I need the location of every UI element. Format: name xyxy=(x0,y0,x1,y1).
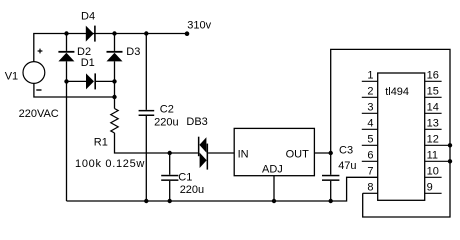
junction C2 top xyxy=(144,31,148,35)
svg-text:DB3: DB3 xyxy=(186,116,207,128)
junction OUT C3 xyxy=(329,151,333,155)
diode D4 xyxy=(86,26,94,42)
svg-text:220u: 220u xyxy=(154,117,178,129)
svg-text:10: 10 xyxy=(427,166,439,178)
minus sign xyxy=(36,89,41,91)
regulator box xyxy=(234,128,314,175)
svg-text:V1: V1 xyxy=(5,71,18,83)
pin 13 stub xyxy=(425,128,442,130)
svg-text:16: 16 xyxy=(427,70,439,82)
svg-text:1: 1 xyxy=(367,70,373,82)
pin 15 stub xyxy=(425,96,442,98)
svg-text:C2: C2 xyxy=(160,104,174,116)
pin 16 stub xyxy=(425,80,442,82)
plus sign xyxy=(38,49,43,54)
source V1 xyxy=(23,62,45,84)
wire middle rail through D3 xyxy=(114,34,116,109)
pin 9 stub xyxy=(425,192,442,194)
diode D3 xyxy=(107,51,123,53)
wire OUT loop to pins 12 11 and 8 xyxy=(331,49,450,217)
svg-text:3: 3 xyxy=(367,102,373,114)
pin 14 stub xyxy=(425,112,442,114)
svg-text:220u: 220u xyxy=(180,184,204,196)
diode D1 xyxy=(86,73,94,89)
pin 1 stub xyxy=(362,80,378,82)
svg-text:8: 8 xyxy=(367,182,373,194)
diac DB3 xyxy=(198,137,208,170)
wire left rail through D2 xyxy=(66,34,68,202)
svg-text:C3: C3 xyxy=(339,145,353,157)
junction D1 D3 xyxy=(112,79,116,83)
svg-text:310v: 310v xyxy=(187,20,211,32)
svg-text:5: 5 xyxy=(367,134,373,146)
pin 4 stub xyxy=(362,128,378,130)
svg-text:D1: D1 xyxy=(81,57,95,69)
wire top rail 310v xyxy=(67,33,188,35)
svg-text:R1: R1 xyxy=(94,136,108,148)
svg-text:D3: D3 xyxy=(126,46,140,58)
svg-text:tl494: tl494 xyxy=(385,86,409,98)
IC body tl494 xyxy=(378,73,425,200)
wire C1 column xyxy=(169,153,171,201)
wire V1 top to node A xyxy=(34,34,67,62)
wire ADJ pin to ground xyxy=(273,176,275,201)
svg-text:D4: D4 xyxy=(81,10,95,22)
capacitor C1 xyxy=(161,175,178,181)
junction C1 ground xyxy=(168,199,172,203)
wire diac to regulator IN xyxy=(208,152,234,154)
pin 12 stub xyxy=(425,144,450,146)
resistor R1 xyxy=(111,109,118,133)
capacitor C2 xyxy=(139,110,155,116)
pin 10 stub xyxy=(425,176,442,178)
svg-text:15: 15 xyxy=(427,86,439,98)
svg-text:4: 4 xyxy=(367,118,373,130)
svg-text:14: 14 xyxy=(427,102,439,114)
svg-text:IN: IN xyxy=(238,149,249,161)
svg-text:47u: 47u xyxy=(338,160,356,172)
svg-text:2: 2 xyxy=(367,86,373,98)
junction C1 top xyxy=(168,151,172,155)
svg-text:7: 7 xyxy=(367,166,373,178)
junction node A top left xyxy=(64,31,68,35)
junction C3 ground xyxy=(329,199,333,203)
svg-text:C1: C1 xyxy=(178,171,192,183)
pin 5 stub xyxy=(362,144,378,146)
diode D2 xyxy=(58,51,74,53)
junction pin 12 xyxy=(448,143,452,147)
wire R1 bottom to diac xyxy=(115,133,198,153)
wire C3 column xyxy=(330,153,332,201)
pin 6 stub xyxy=(362,160,378,162)
pin 2 stub xyxy=(362,96,378,98)
svg-text:ADJ: ADJ xyxy=(262,163,283,175)
wire C2 rail xyxy=(145,34,147,202)
svg-text:D2: D2 xyxy=(77,46,91,58)
junction ADJ ground xyxy=(272,199,276,203)
wire ground rail to pin 7 xyxy=(67,177,378,201)
svg-text:220VAC: 220VAC xyxy=(19,108,59,120)
svg-text:6: 6 xyxy=(367,150,373,162)
junction pin 11 xyxy=(448,159,452,163)
junction V1 R1 xyxy=(112,95,116,99)
svg-text:100k 0.125w: 100k 0.125w xyxy=(75,158,145,170)
junction C2 ground xyxy=(144,199,148,203)
wire V1 bottom to node D xyxy=(34,84,115,98)
junction D4 D3 xyxy=(112,31,116,35)
wire regulator OUT xyxy=(314,152,330,154)
svg-text:13: 13 xyxy=(427,118,439,130)
terminal 310v xyxy=(185,31,190,36)
svg-text:11: 11 xyxy=(427,150,438,162)
pin 3 stub xyxy=(362,112,378,114)
wire D1 row xyxy=(67,80,115,82)
svg-text:9: 9 xyxy=(427,182,433,194)
svg-text:OUT: OUT xyxy=(286,149,310,161)
capacitor C3 xyxy=(322,175,339,181)
svg-text:12: 12 xyxy=(427,134,439,146)
pin 11 stub xyxy=(425,160,450,162)
junction D2 D1 xyxy=(64,79,68,83)
pin 8 stub xyxy=(363,192,378,194)
